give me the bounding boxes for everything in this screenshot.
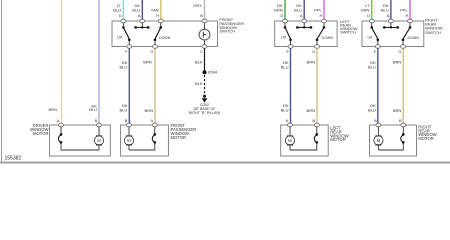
right rear window switch S4 box xyxy=(362,21,424,47)
svg-text:A: A xyxy=(151,118,154,123)
S4 pin F connector oval xyxy=(375,45,380,49)
S1 pin C connector oval xyxy=(202,45,207,49)
wire LT GRN to switch S4 pin D xyxy=(371,0,373,19)
S4 pin A feed bar xyxy=(383,23,399,29)
S1 pin H contact stub xyxy=(160,23,163,29)
S3 UP switch blade xyxy=(285,28,291,44)
wire DK BLU S1 pin F to motor M2 pin B xyxy=(128,48,130,123)
svg-text:D: D xyxy=(281,13,284,18)
svg-text:S504: S504 xyxy=(208,70,218,75)
S4 DOWN switch blade xyxy=(402,28,410,44)
svg-text:MOTOR: MOTOR xyxy=(418,136,434,141)
svg-text:GRY: GRY xyxy=(193,3,202,8)
svg-text:GRN: GRN xyxy=(361,8,370,13)
wire DK BLU driver window circuit (top feed to motor M1 pin B) xyxy=(98,0,100,123)
wire DK GRN to switch S3 pin D xyxy=(284,0,286,19)
svg-text:BRN: BRN xyxy=(393,108,402,113)
svg-text:BLU: BLU xyxy=(120,107,128,112)
S1 pin A connector oval xyxy=(140,19,145,23)
page bottom border xyxy=(0,162,450,164)
S1 illumination lamp E1 xyxy=(199,23,210,45)
svg-text:UP: UP xyxy=(368,36,374,40)
svg-text:155382: 155382 xyxy=(5,156,22,162)
svg-text:UP: UP xyxy=(117,36,123,40)
S3 pin H contact stub xyxy=(323,23,326,29)
S4 pin D contact stub xyxy=(370,23,373,29)
svg-text:PPL: PPL xyxy=(400,8,408,13)
svg-text:MOTOR: MOTOR xyxy=(330,137,346,142)
wire DK BLU S4 pin F to motor M4 pin A xyxy=(377,48,379,123)
svg-text:B: B xyxy=(95,118,98,123)
S1 pin A feed bar xyxy=(134,23,149,29)
svg-text:A: A xyxy=(57,118,60,123)
M3 circuit breaker xyxy=(314,127,318,144)
svg-text:B: B xyxy=(200,13,203,18)
svg-text:G: G xyxy=(398,49,401,54)
S1 pin G connector oval xyxy=(153,45,158,49)
svg-text:BRN: BRN xyxy=(49,107,58,112)
svg-text:BLK: BLK xyxy=(195,81,203,86)
svg-text:H: H xyxy=(406,13,409,18)
wire GRY to switch S1 pin B xyxy=(204,0,206,19)
svg-text:DOWN: DOWN xyxy=(322,36,334,40)
svg-text:F: F xyxy=(374,49,377,54)
page left border xyxy=(1,0,3,163)
left rear window switch S3 box xyxy=(275,21,337,47)
svg-text:BLK: BLK xyxy=(195,60,203,65)
svg-text:A: A xyxy=(286,118,289,123)
wire DK BLU to switch S1 pin A xyxy=(141,0,143,19)
svg-text:SWITCH: SWITCH xyxy=(425,30,441,35)
M4 pin B connector oval xyxy=(401,123,406,127)
svg-text:BLU: BLU xyxy=(294,8,302,13)
S4 pin G connector oval xyxy=(401,45,406,49)
wire DK BLU S3 pin F to motor M3 pin A xyxy=(290,48,292,123)
left rear window motor M3 box xyxy=(281,125,329,156)
wire BLK S504 to ground G302 (dashed) xyxy=(204,75,206,95)
svg-text:MOTOR: MOTOR xyxy=(33,131,49,136)
M4 circuit breaker xyxy=(401,127,405,144)
M1 circuit breaker xyxy=(58,127,62,144)
svg-text:BLU: BLU xyxy=(132,8,140,13)
wire DK BLU to switch S3 pin A xyxy=(303,0,305,19)
wire LT BLU to switch S1 pin D xyxy=(122,0,124,19)
S3 pin G connector oval xyxy=(315,45,320,49)
M1 pin A connector oval xyxy=(59,123,64,127)
svg-text:A: A xyxy=(300,13,303,18)
M3 motor xyxy=(285,127,294,150)
svg-text:B: B xyxy=(399,118,402,123)
S3 pin A feed bar xyxy=(296,23,312,29)
M2 pin A connector oval xyxy=(152,123,157,127)
M4 internal wire to motor xyxy=(378,143,403,150)
svg-text:A: A xyxy=(387,13,390,18)
svg-text:BLU: BLU xyxy=(113,8,121,13)
wire PPL to switch S4 pin H xyxy=(409,0,411,19)
S4 pin H connector oval xyxy=(408,19,413,23)
svg-text:H: H xyxy=(156,13,159,18)
svg-text:BRN: BRN xyxy=(143,60,152,65)
S3 DOWN switch blade xyxy=(316,28,324,44)
M4 pin A connector oval xyxy=(376,123,381,127)
wire BRN S3 pin G to motor M3 pin B xyxy=(316,48,318,123)
svg-text:M: M xyxy=(377,138,381,143)
S4 pin H contact stub xyxy=(409,23,412,29)
svg-text:BLU: BLU xyxy=(381,8,389,13)
S3 pin D connector oval xyxy=(283,19,288,23)
svg-text:RIGHT "B" PILLAR): RIGHT "B" PILLAR) xyxy=(189,111,221,115)
svg-text:BLU: BLU xyxy=(368,64,376,69)
front passenger window switch S1 box xyxy=(112,21,218,47)
svg-text:BLU: BLU xyxy=(281,107,289,112)
S1 DOWN switch blade xyxy=(154,28,161,44)
S3 pin A connector oval xyxy=(302,19,307,23)
S4 pin A connector oval xyxy=(388,19,393,23)
svg-text:D: D xyxy=(119,13,122,18)
S4 UP switch blade xyxy=(372,28,379,44)
svg-text:TAN: TAN xyxy=(151,8,159,13)
svg-text:BRN: BRN xyxy=(307,108,316,113)
S3 pin D contact stub xyxy=(284,23,287,29)
svg-text:DOWN: DOWN xyxy=(159,36,171,40)
ground G302 symbol xyxy=(202,95,208,103)
svg-text:MOTOR: MOTOR xyxy=(171,135,187,140)
svg-text:D: D xyxy=(367,13,370,18)
svg-text:BRN: BRN xyxy=(145,108,154,113)
splice S504 xyxy=(202,70,206,74)
svg-text:UP: UP xyxy=(281,36,287,40)
svg-text:C: C xyxy=(200,49,203,54)
S1 pin F connector oval xyxy=(127,45,132,49)
S3 pin F connector oval xyxy=(288,45,293,49)
wire BRN S1 pin G to motor M2 pin A xyxy=(154,48,156,123)
svg-text:B: B xyxy=(125,118,128,123)
S1 pin D contact stub xyxy=(122,23,125,29)
svg-text:M: M xyxy=(288,138,292,143)
M1 motor xyxy=(94,127,103,150)
svg-text:BRN: BRN xyxy=(307,60,316,65)
wire BRN S4 pin G to motor M4 pin B xyxy=(402,48,404,123)
M2 circuit breaker xyxy=(152,127,156,144)
svg-text:A: A xyxy=(374,118,377,123)
M3 internal wire to motor xyxy=(290,143,317,150)
wire BRN driver window circuit (top feed to motor M1 pin A) xyxy=(61,0,63,123)
svg-text:F: F xyxy=(286,49,289,54)
right rear window motor M4 box xyxy=(370,125,417,156)
M1 internal wire to motor xyxy=(61,143,99,150)
front passenger window motor M2 box xyxy=(121,125,169,156)
svg-text:H: H xyxy=(320,13,323,18)
svg-text:PPL: PPL xyxy=(314,8,322,13)
wire BLK S1 pin C to splice S504 xyxy=(204,48,206,71)
svg-text:M: M xyxy=(127,138,131,143)
svg-text:BLU: BLU xyxy=(368,107,376,112)
svg-text:B: B xyxy=(313,118,316,123)
svg-text:A: A xyxy=(138,13,141,18)
svg-text:DOWN: DOWN xyxy=(408,36,420,40)
M2 motor xyxy=(124,127,133,150)
S4 pin D connector oval xyxy=(369,19,374,23)
S1 pin D connector oval xyxy=(121,19,126,23)
S1 UP switch blade xyxy=(124,28,131,44)
wire PPL to switch S3 pin H xyxy=(323,0,325,19)
M3 pin B connector oval xyxy=(314,123,319,127)
svg-text:M: M xyxy=(97,138,101,143)
svg-text:GRN: GRN xyxy=(274,8,283,13)
svg-text:BLU: BLU xyxy=(120,64,128,69)
svg-text:G: G xyxy=(150,49,153,54)
S1 pin H connector oval xyxy=(158,19,163,23)
wire DK BLU to switch S4 pin A xyxy=(390,0,392,19)
svg-text:G: G xyxy=(312,49,315,54)
driver window motor M1 box xyxy=(50,125,111,156)
S1 pin B connector oval xyxy=(202,19,207,23)
svg-text:SWITCH: SWITCH xyxy=(219,29,235,34)
svg-text:BLU: BLU xyxy=(281,64,289,69)
M3 pin A connector oval xyxy=(288,123,293,127)
M2 internal wire to motor xyxy=(129,143,155,150)
svg-text:BLU: BLU xyxy=(89,107,97,112)
M1 pin B connector oval xyxy=(97,123,102,127)
svg-text:BRN: BRN xyxy=(393,60,402,65)
svg-text:SWITCH: SWITCH xyxy=(340,29,356,34)
M2 pin B connector oval xyxy=(127,123,132,127)
svg-text:F: F xyxy=(125,49,128,54)
M4 motor xyxy=(374,127,383,150)
wire TAN to switch S1 pin H xyxy=(160,0,162,19)
S3 pin H connector oval xyxy=(322,19,327,23)
